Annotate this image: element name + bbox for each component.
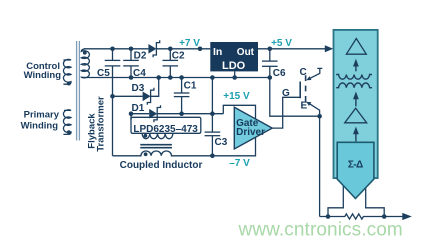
- control winding of T1: [63, 59, 71, 84]
- node -7V: [210, 154, 215, 159]
- coupled inductor L1 top winding: [142, 133, 173, 138]
- svg-text:D1: D1: [132, 103, 145, 114]
- up arrow 3: [355, 133, 357, 142]
- svg-text:Out: Out: [237, 47, 255, 58]
- arrow right at bottom rail: [402, 213, 412, 220]
- svg-text:Driver: Driver: [236, 127, 265, 138]
- gate driver U2 supply rect: [212, 105, 255, 156]
- wire rail A (+7V rail from secondary top to LDO In): [84, 48, 148, 50]
- svg-text:C2: C2: [172, 51, 185, 62]
- control winding polarity dot: [67, 82, 71, 86]
- svg-text:www.cntronics.com: www.cntronics.com: [238, 219, 403, 240]
- capacitor C4: [123, 49, 139, 78]
- wire pedestal right to sigma-delta: [366, 186, 385, 217]
- wire rail C (+15V rail): [131, 113, 149, 115]
- node C2/rail B: [168, 75, 173, 80]
- node C4/rail B: [129, 75, 134, 80]
- svg-text:D3: D3: [132, 83, 145, 94]
- coupled inductor L1 box: [131, 117, 201, 133]
- coupled inductor core: [140, 145, 172, 148]
- diode D1 (schottky): [149, 109, 157, 119]
- svg-text:C6: C6: [273, 68, 286, 79]
- L1 top winding polarity dot: [144, 134, 148, 138]
- primary winding polarity dot: [67, 130, 71, 134]
- node emitter: [317, 114, 322, 119]
- sigma-delta modulator U4: [337, 142, 374, 198]
- arrow into isolator block: [325, 45, 334, 52]
- secondary winding of T1: [81, 49, 89, 78]
- capacitor C2: [163, 49, 179, 78]
- svg-text:C1: C1: [184, 81, 197, 92]
- LDO regulator U1: [210, 42, 258, 71]
- L1 bottom winding polarity dot: [144, 152, 148, 156]
- node C2/rail A: [168, 47, 173, 52]
- node rail C left: [129, 111, 134, 116]
- svg-text:E: E: [301, 101, 308, 112]
- amplifier triangle A1: [346, 39, 366, 55]
- isolation transformer T2 top winding: [336, 75, 372, 80]
- wire 0V from C6 down and to emitter: [270, 78, 320, 117]
- gate driver U2 triangle: [234, 107, 272, 149]
- wire LDO gnd stub: [234, 71, 236, 77]
- IGBT Q1 emitter lead with arrow: [310, 104, 320, 116]
- node LDO gnd/rail B: [232, 75, 237, 80]
- node C6/rail B: [268, 75, 273, 80]
- coupled inductor L1 bottom winding + wires: [113, 151, 213, 156]
- diode D2 (schottky): [148, 44, 156, 54]
- svg-text:Transformer: Transformer: [96, 96, 107, 152]
- node C3/rail C: [210, 111, 215, 116]
- bottom rail with resistor R1: [320, 214, 403, 219]
- node +7V: [198, 47, 203, 52]
- node C3 wire/rail B: [210, 75, 215, 80]
- svg-text:In: In: [213, 46, 222, 58]
- svg-text:–7 V: –7 V: [229, 158, 250, 169]
- svg-text:LDO: LDO: [222, 60, 246, 72]
- node pedestal right: [382, 214, 387, 219]
- node C4/rail A: [129, 47, 134, 52]
- IGBT Q1 collector lead: [308, 68, 322, 79]
- svg-text:Coupled Inductor: Coupled Inductor: [120, 160, 203, 171]
- wire D3 cathode up to rail B: [151, 78, 159, 97]
- isolator/ADC block U3: [334, 30, 378, 178]
- capacitor C6: [262, 49, 278, 78]
- capacitor C5: [105, 49, 121, 97]
- capacitor C1: [174, 78, 190, 114]
- up arrow 1: [355, 65, 357, 72]
- svg-text:+7 V: +7 V: [179, 38, 200, 49]
- svg-text:Winding: Winding: [24, 70, 62, 81]
- wire C5 node down to bottom winding: [112, 96, 114, 156]
- IGBT Q1 gate bar: [299, 82, 301, 99]
- svg-text:Primary: Primary: [24, 110, 60, 121]
- wire rail B (0V common rail): [84, 77, 270, 79]
- secondary winding polarity dot: [83, 51, 87, 55]
- IGBT Q1 channel bar (dashed): [305, 75, 307, 102]
- node C6/+5V: [268, 47, 273, 52]
- wire gate driver output to IGBT gate: [272, 97, 300, 128]
- diode D3 (schottky): [143, 92, 151, 102]
- isolation transformer T2 bottom winding: [336, 83, 372, 88]
- node C5/D3 anode: [110, 94, 115, 99]
- wire +5V rail from LDO Out to isolator block: [258, 48, 326, 50]
- wire from rail C down to coupled inductor box: [130, 114, 132, 120]
- capacitor C3: [205, 78, 221, 156]
- primary winding of T1: [63, 110, 71, 135]
- up arrow 2: [355, 98, 357, 107]
- node C1/rail B: [179, 75, 184, 80]
- svg-text:Winding: Winding: [21, 120, 59, 131]
- svg-text:+15 V: +15 V: [223, 91, 250, 102]
- flyback transformer T1 core: [77, 41, 80, 141]
- node C5/rail A: [110, 47, 115, 52]
- node C1/rail C: [179, 111, 184, 116]
- svg-text:Σ-Δ: Σ-Δ: [348, 159, 363, 170]
- node pedestal left: [326, 214, 331, 219]
- svg-text:+5 V: +5 V: [271, 38, 292, 49]
- svg-text:C: C: [300, 67, 307, 78]
- wire emitter down to bottom rail: [319, 116, 321, 216]
- wire D3 anode rail: [113, 95, 143, 97]
- svg-text:G: G: [282, 88, 290, 99]
- svg-text:C3: C3: [215, 137, 228, 148]
- wire pedestal left to sigma-delta: [328, 186, 343, 217]
- node D3 cathode/rail B: [156, 75, 161, 80]
- amplifier triangle A2: [345, 108, 367, 123]
